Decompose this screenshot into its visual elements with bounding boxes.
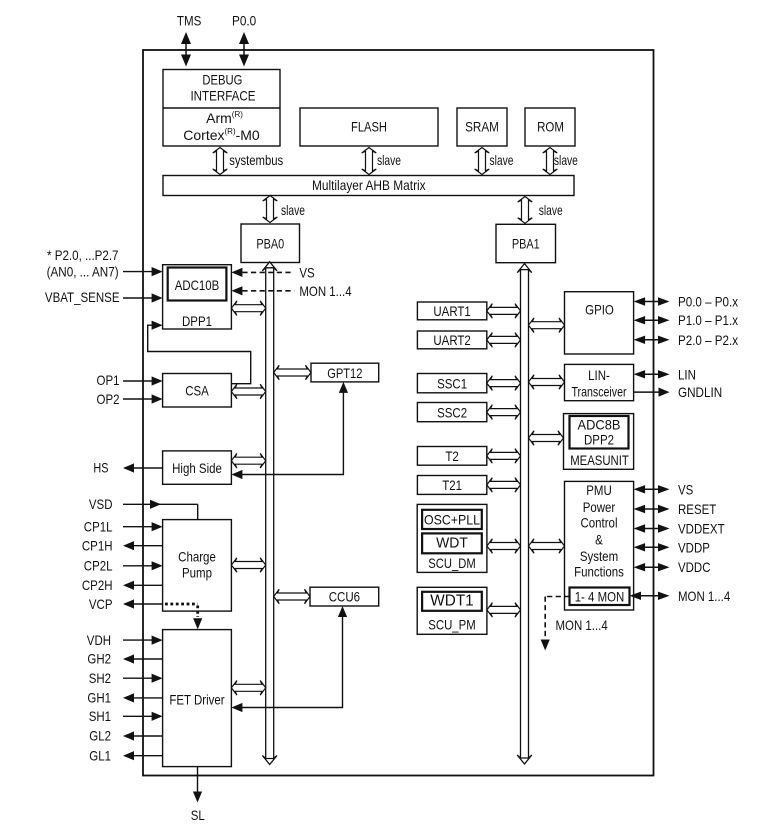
svg-text:MON 1...4: MON 1...4	[299, 283, 351, 299]
slave arrow FLASH-to-matrix	[362, 148, 401, 175]
svg-text:slave: slave	[281, 202, 305, 218]
port P0.0 - P0.x	[634, 294, 738, 310]
svg-text:CP2H: CP2H	[82, 577, 113, 593]
slave arrow matrix-to-PBA0	[263, 196, 305, 223]
svg-text:SSC1: SSC1	[437, 375, 467, 391]
svg-text:VS: VS	[678, 481, 693, 497]
pin VDH	[87, 632, 163, 648]
block T21	[417, 476, 486, 495]
block WDT1	[422, 592, 482, 611]
svg-text:ADC10B: ADC10B	[175, 277, 220, 293]
svg-text:P2.0 – P2.x: P2.0 – P2.x	[678, 332, 738, 348]
svg-text:GL2: GL2	[89, 728, 111, 744]
svg-text:(AN0, ... AN7): (AN0, ... AN7)	[47, 264, 119, 280]
svg-text:WDT1: WDT1	[430, 593, 473, 610]
pin CP1H	[82, 538, 163, 554]
port VS	[634, 481, 694, 497]
svg-text:GPT12: GPT12	[327, 365, 362, 381]
block SSC1	[417, 374, 486, 393]
arrow SCU_DM-to-bus	[487, 539, 521, 554]
svg-text:VSD: VSD	[89, 496, 113, 512]
block OSC+PLL	[422, 510, 482, 529]
pin SH1	[89, 708, 163, 724]
pin SH2	[89, 670, 163, 686]
svg-text:Pump: Pump	[182, 564, 212, 580]
port P2.0 - P2.x	[634, 332, 738, 348]
block 1-4 MON	[570, 588, 630, 606]
dashed input VS to ADC10B	[231, 264, 314, 280]
svg-text:LIN: LIN	[678, 366, 696, 382]
svg-text:UART2: UART2	[433, 332, 471, 348]
svg-text:SCU_DM: SCU_DM	[428, 555, 475, 571]
svg-text:FLASH: FLASH	[351, 118, 387, 134]
block DPP1	[163, 265, 232, 329]
block PBA1	[496, 224, 556, 262]
svg-text:WDT: WDT	[436, 536, 468, 552]
arrow SSC1-to-bus	[487, 376, 521, 391]
port LIN	[634, 366, 696, 382]
systembus arrow CPU-to-matrix	[213, 148, 284, 175]
arrow bus-to-CCU6	[274, 589, 310, 604]
svg-text:Control: Control	[581, 515, 618, 531]
pin VBAT_SENSE	[45, 289, 163, 305]
svg-text:DPP2: DPP2	[584, 432, 614, 448]
block SRAM	[457, 108, 507, 146]
arrow CSA-to-bus	[231, 384, 265, 399]
pin TMS	[177, 13, 201, 67]
svg-text:P0.0 – P0.x: P0.0 – P0.x	[678, 294, 738, 310]
arrow bus-to-MEASUNIT	[529, 431, 564, 446]
svg-text:slave: slave	[490, 152, 514, 168]
arrow UART2-to-bus	[487, 333, 521, 348]
svg-text:INTERFACE: INTERFACE	[190, 87, 255, 103]
svg-text:Cortex(R)-M0: Cortex(R)-M0	[183, 127, 260, 144]
port MON 1...4	[630, 588, 731, 604]
svg-text:FET Driver: FET Driver	[169, 692, 225, 708]
block ROM	[525, 108, 575, 146]
slave arrow matrix-to-PBA1	[518, 197, 563, 224]
svg-text:slave: slave	[539, 202, 563, 218]
svg-text:OP2: OP2	[97, 391, 120, 407]
svg-text:CP1H: CP1H	[82, 538, 113, 554]
svg-text:SSC2: SSC2	[437, 404, 467, 420]
block GPT12	[311, 363, 379, 382]
arrow SCU_PM-to-bus	[487, 603, 521, 618]
block Charge Pump	[163, 520, 232, 612]
svg-text:PMU: PMU	[586, 482, 612, 498]
block ADC10B	[168, 268, 227, 301]
arrow bus-to-GPT12	[274, 365, 311, 380]
block CCU6	[310, 587, 379, 606]
svg-text:PBA0: PBA0	[256, 235, 284, 251]
block UART1	[417, 302, 486, 320]
svg-text:RESET: RESET	[678, 501, 717, 517]
pin GH1	[87, 690, 162, 706]
dashed input MON 1...4 to ADC10B	[231, 283, 351, 299]
svg-text:VDDP: VDDP	[678, 539, 710, 555]
block DEBUG INTERFACE / Arm Cortex-M0 CPU	[163, 70, 280, 147]
block PBA0	[241, 224, 300, 263]
svg-text:systembus: systembus	[229, 152, 283, 168]
block WDT	[422, 533, 482, 553]
arrow SSC2-to-bus	[487, 405, 521, 420]
block LIN-Transceiver	[565, 364, 634, 400]
svg-text:LIN-: LIN-	[588, 367, 610, 383]
svg-text:T2: T2	[445, 448, 459, 464]
svg-text:TMS: TMS	[177, 13, 201, 29]
block FET Driver	[163, 630, 232, 767]
arrow bus-to-PMU	[529, 539, 565, 554]
pin CP2H	[82, 577, 163, 593]
svg-text:DEBUG: DEBUG	[202, 71, 242, 87]
svg-text:P0.0: P0.0	[232, 13, 256, 29]
wire GPT12 to High Side	[231, 382, 348, 479]
block T2	[417, 447, 486, 466]
block GPIO	[565, 292, 634, 354]
dotted wire VCP to FET Driver	[165, 604, 202, 629]
block CSA	[163, 374, 232, 408]
block MEASUNIT	[564, 414, 634, 470]
svg-text:ROM: ROM	[537, 118, 564, 134]
pin VCP	[89, 596, 163, 612]
port P1.0 - P1.x	[634, 312, 738, 328]
arrow T2-to-bus	[487, 449, 521, 464]
arrow bus-to-GPIO	[529, 318, 565, 333]
svg-text:CCU6: CCU6	[329, 589, 360, 605]
svg-text:SRAM: SRAM	[465, 118, 499, 134]
arrow FETDriver-to-bus	[231, 681, 265, 696]
pin GL2	[89, 728, 162, 744]
svg-text:VCP: VCP	[89, 596, 113, 612]
svg-text:PBA1: PBA1	[512, 236, 540, 252]
svg-text:ADC8B: ADC8B	[578, 416, 621, 432]
svg-text:VS: VS	[299, 264, 314, 280]
pin HS	[93, 460, 162, 476]
slave arrow ROM-to-matrix	[543, 148, 578, 175]
svg-text:Charge: Charge	[178, 548, 216, 564]
slave arrow SRAM-to-matrix	[475, 148, 514, 175]
svg-text:VDH: VDH	[87, 632, 111, 648]
svg-text:GNDLIN: GNDLIN	[678, 384, 722, 400]
arrow bus-to-LIN	[529, 375, 565, 390]
svg-text:SH2: SH2	[89, 670, 111, 686]
port GNDLIN	[634, 384, 723, 400]
svg-text:High Side: High Side	[172, 460, 222, 476]
dashed wire MON 1...4 from 1-4 MON	[541, 597, 608, 651]
pin GH2	[87, 651, 162, 667]
svg-text:Transceiver: Transceiver	[571, 384, 626, 400]
svg-text:CP2L: CP2L	[84, 558, 113, 574]
svg-text:MEASUNIT: MEASUNIT	[570, 452, 629, 468]
svg-text:OSC+PLL: OSC+PLL	[424, 512, 480, 528]
svg-text:VDDC: VDDC	[678, 559, 711, 575]
svg-text:Functions: Functions	[574, 563, 624, 579]
svg-text:VBAT_SENSE: VBAT_SENSE	[45, 289, 120, 305]
svg-text:GPIO: GPIO	[585, 301, 614, 317]
pin OP1	[97, 372, 163, 388]
svg-text:CSA: CSA	[185, 383, 209, 399]
arrow T21-to-bus	[487, 478, 521, 493]
svg-text:T21: T21	[442, 477, 462, 493]
block ADC8B DPP2	[570, 416, 629, 449]
block Multilayer AHB Matrix	[163, 176, 574, 196]
pin GL1	[89, 747, 162, 763]
pin SL	[191, 767, 205, 823]
svg-text:&: &	[595, 531, 603, 547]
peripheral bus PBA1 vertical bus	[517, 264, 532, 764]
svg-text:P1.0 – P1.x: P1.0 – P1.x	[678, 312, 738, 328]
svg-text:GL1: GL1	[89, 747, 111, 763]
arrow ChargePump-to-bus	[231, 558, 265, 573]
block High Side switch	[163, 451, 232, 484]
svg-text:SCU_PM: SCU_PM	[428, 616, 475, 632]
pin CP2L	[84, 558, 163, 574]
svg-text:VDDEXT: VDDEXT	[678, 521, 725, 537]
svg-text:CP1L: CP1L	[84, 519, 113, 535]
port VDDC	[634, 559, 711, 575]
pin VSD	[89, 496, 198, 520]
svg-text:slave: slave	[377, 152, 401, 168]
arrow HighSide-to-bus	[231, 453, 265, 468]
svg-text:GH2: GH2	[87, 651, 111, 667]
svg-text:UART1: UART1	[433, 303, 471, 319]
block UART2	[417, 331, 486, 349]
arrow UART1-to-bus	[487, 304, 521, 319]
svg-text:1- 4 MON: 1- 4 MON	[575, 589, 625, 605]
block FLASH	[300, 108, 438, 146]
block SSC2	[417, 403, 486, 422]
peripheral bus PBA0 vertical bus	[262, 262, 277, 765]
port VDDP	[634, 539, 710, 555]
svg-text:SH1: SH1	[89, 708, 111, 724]
block SCU_DM	[417, 504, 487, 572]
svg-text:MON 1...4: MON 1...4	[678, 588, 730, 604]
svg-text:DPP1: DPP1	[182, 313, 212, 329]
svg-text:MON 1...4: MON 1...4	[556, 617, 608, 633]
port RESET	[634, 501, 717, 517]
pin label P2.0...P2.7 (AN0...AN7)	[47, 247, 163, 279]
svg-text:OP1: OP1	[97, 372, 120, 388]
pin OP2	[97, 391, 163, 407]
pin P0.0	[232, 13, 256, 67]
svg-text:HS: HS	[93, 460, 108, 476]
svg-text:Power: Power	[583, 499, 616, 515]
svg-text:System: System	[580, 548, 618, 564]
svg-text:SL: SL	[191, 807, 205, 823]
wire CCU6 to FET Driver	[231, 606, 347, 712]
block SCU_PM	[417, 587, 487, 634]
block PMU Power Control and System Functions	[565, 481, 634, 610]
pin CP1L	[84, 519, 163, 535]
svg-text:Multilayer AHB Matrix: Multilayer AHB Matrix	[312, 177, 426, 193]
svg-text:slave: slave	[554, 152, 578, 168]
svg-text:GH1: GH1	[87, 690, 111, 706]
chip boundary frame	[143, 50, 654, 776]
port VDDEXT	[634, 521, 725, 537]
svg-text:* P2.0, ...P2.7: * P2.0, ...P2.7	[47, 247, 119, 263]
arrow DPP1-to-bus	[231, 301, 265, 316]
wire CSA to DPP1 feedback	[148, 321, 251, 384]
